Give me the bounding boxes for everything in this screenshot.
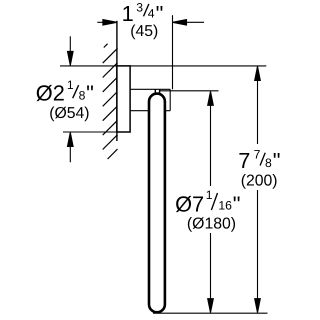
flange (O54 escutcheon) side view — [117, 66, 130, 132]
wall surface line — [116, 21, 118, 141]
dimension 200 (7 7/8): vertical line with arrows at x=257.5 — [255, 66, 261, 312]
extension line bottom baseline (y=312.4) — [153, 312, 268, 314]
svg-text:": " — [86, 80, 94, 105]
svg-text:8: 8 — [265, 156, 272, 170]
dimension 45: left arrow — [97, 20, 117, 26]
svg-text:(45): (45) — [130, 23, 158, 40]
towel ring (side view capsule) — [149, 94, 165, 313]
svg-text:": " — [273, 148, 281, 173]
dimension 45: right arrow — [173, 20, 205, 26]
svg-text:(Ø54): (Ø54) — [49, 105, 89, 122]
svg-text:16: 16 — [218, 199, 232, 213]
svg-text:1: 1 — [67, 78, 74, 92]
svg-text:Ø7: Ø7 — [175, 191, 204, 216]
extension line bottom of flange (y=131.9) — [63, 131, 130, 133]
svg-text:(Ø180): (Ø180) — [187, 215, 236, 232]
dimension O54: up arrow below flange — [68, 133, 74, 163]
svg-text:3: 3 — [136, 1, 143, 15]
svg-text:4: 4 — [148, 6, 155, 20]
dimension O180 (O7 1/16): vertical line with arrows at x=210.5 — [208, 91, 214, 312]
wall hatching — [103, 44, 118, 159]
svg-text:Ø2: Ø2 — [36, 80, 65, 105]
mounting arm — [130, 89, 170, 110]
svg-text:7: 7 — [238, 148, 250, 173]
ring mount pin (two ticks) — [154, 89, 156, 93]
extension line top of flange (y=65.9) — [60, 65, 266, 67]
svg-text:1: 1 — [206, 188, 213, 202]
extension line top of ring (y=90.7) — [159, 90, 218, 92]
svg-text:(200): (200) — [241, 173, 278, 190]
svg-text:8: 8 — [79, 88, 86, 102]
extension line right of post for 45 dim — [172, 15, 174, 89]
dimension O54: down arrow above flange — [68, 36, 74, 65]
svg-text:": " — [233, 191, 241, 216]
svg-text:7: 7 — [254, 148, 261, 162]
